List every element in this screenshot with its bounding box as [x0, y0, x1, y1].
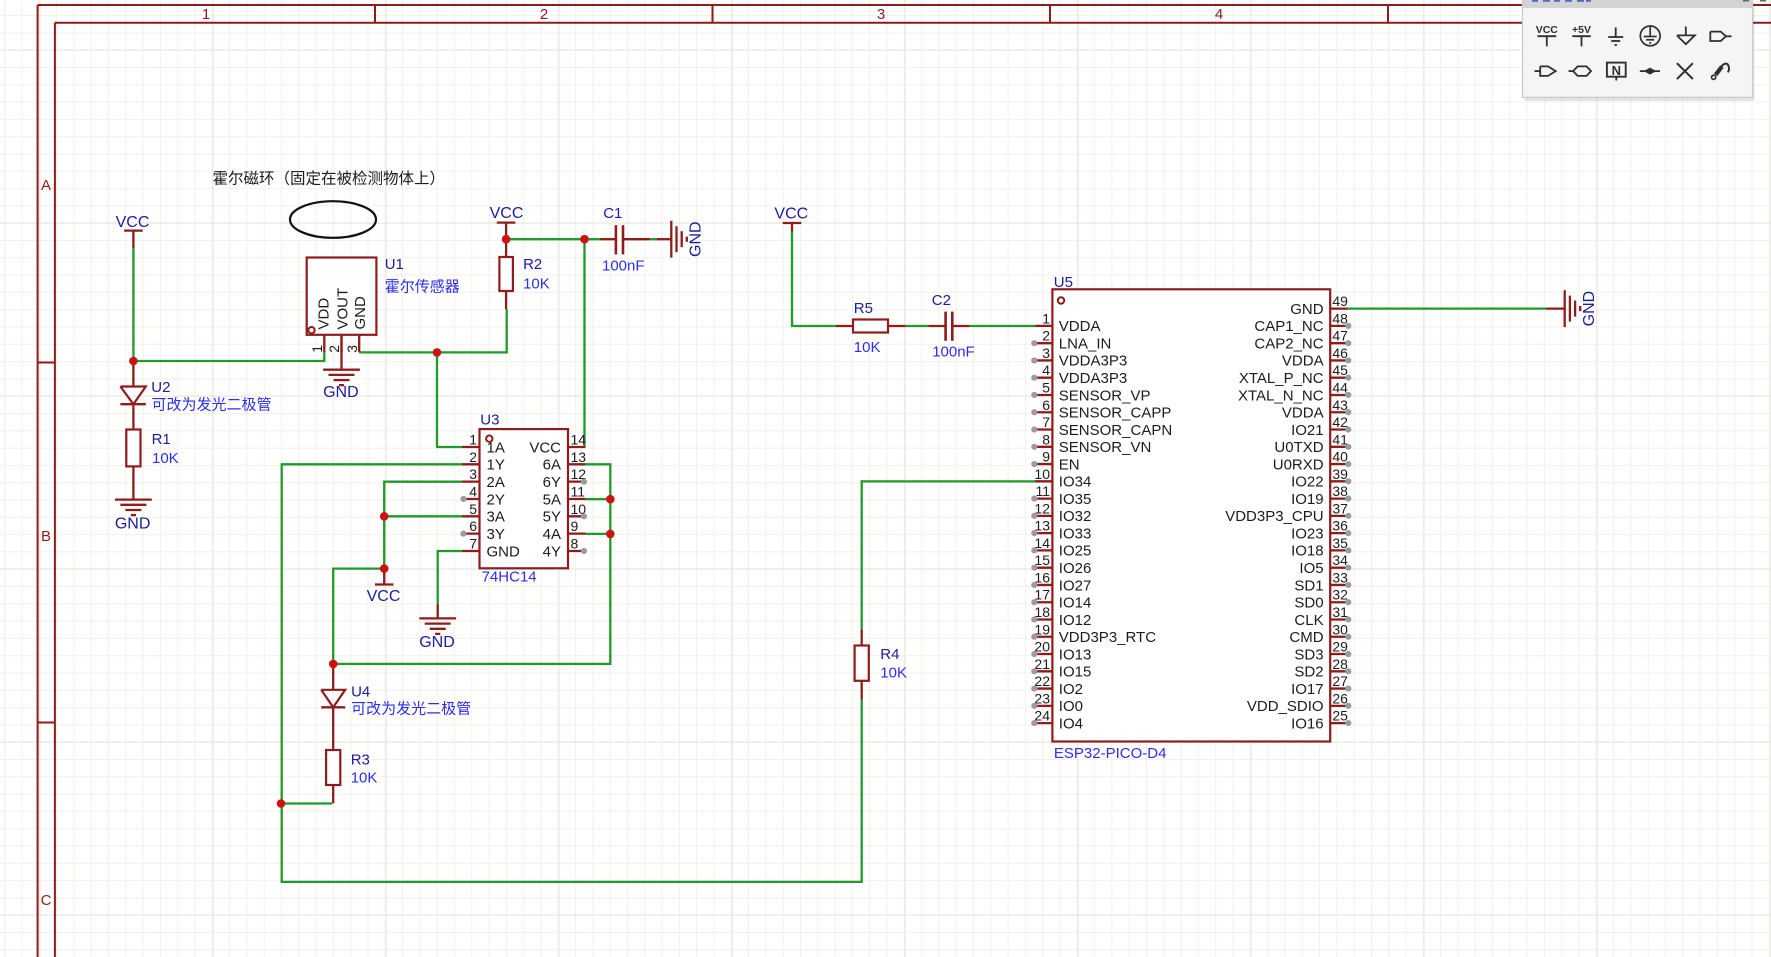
svg-text:VCC: VCC: [1536, 24, 1559, 36]
svg-text:38: 38: [1332, 483, 1348, 499]
svg-text:1Y: 1Y: [487, 457, 505, 474]
svg-text:IO12: IO12: [1059, 612, 1092, 629]
svg-text:SD1: SD1: [1294, 577, 1323, 594]
svg-text:SD3: SD3: [1294, 646, 1323, 663]
svg-text:A: A: [41, 177, 51, 194]
svg-text:4: 4: [1042, 362, 1050, 378]
svg-text:VCC: VCC: [529, 439, 561, 456]
svg-text:R2: R2: [523, 256, 542, 273]
svg-text:ESP32-PICO-D4: ESP32-PICO-D4: [1054, 745, 1167, 762]
svg-text:N: N: [1612, 63, 1621, 78]
svg-text:11: 11: [571, 483, 586, 499]
svg-text:CLK: CLK: [1294, 612, 1323, 629]
svg-text:+5V: +5V: [1572, 24, 1591, 36]
svg-text:GND: GND: [1290, 301, 1324, 318]
svg-text:VDDA3P3: VDDA3P3: [1059, 370, 1127, 387]
svg-text:6: 6: [1042, 397, 1050, 413]
svg-text:VDDA3P3: VDDA3P3: [1059, 353, 1127, 370]
svg-text:IO25: IO25: [1059, 543, 1092, 560]
svg-text:3Y: 3Y: [487, 526, 505, 543]
svg-text:XTAL_N_NC: XTAL_N_NC: [1238, 387, 1324, 404]
svg-text:46: 46: [1332, 345, 1348, 361]
svg-text:19: 19: [1034, 621, 1050, 637]
svg-text:3: 3: [877, 6, 885, 23]
svg-text:SD2: SD2: [1294, 664, 1323, 681]
svg-text:4A: 4A: [543, 526, 561, 543]
svg-text:C2: C2: [932, 292, 951, 309]
svg-text:U5: U5: [1054, 274, 1073, 291]
svg-text:10K: 10K: [880, 665, 907, 682]
svg-text:10K: 10K: [351, 770, 378, 787]
svg-text:GND: GND: [115, 515, 151, 532]
svg-text:R1: R1: [152, 431, 171, 448]
svg-text:16: 16: [1034, 569, 1050, 585]
svg-text:IO0: IO0: [1059, 698, 1083, 715]
svg-text:IO16: IO16: [1291, 715, 1324, 732]
svg-text:1: 1: [469, 432, 477, 448]
svg-text:20: 20: [1034, 639, 1050, 655]
svg-text:2Y: 2Y: [487, 491, 505, 508]
svg-text:3: 3: [469, 466, 477, 482]
svg-text:100nF: 100nF: [602, 258, 645, 275]
svg-text:6Y: 6Y: [543, 474, 561, 491]
svg-text:3A: 3A: [487, 509, 505, 526]
svg-text:IO13: IO13: [1059, 646, 1092, 663]
svg-text:21: 21: [1034, 656, 1050, 672]
svg-text:74HC14: 74HC14: [482, 569, 537, 586]
svg-text:LNA_IN: LNA_IN: [1059, 335, 1112, 352]
svg-text:2: 2: [469, 449, 477, 465]
svg-text:SENSOR_CAPP: SENSOR_CAPP: [1059, 405, 1172, 422]
svg-text:48: 48: [1332, 310, 1348, 326]
svg-text:VCC: VCC: [774, 206, 808, 223]
svg-text:34: 34: [1332, 552, 1348, 568]
svg-text:GND: GND: [323, 384, 359, 401]
svg-text:SENSOR_VP: SENSOR_VP: [1059, 387, 1151, 404]
svg-text:IO34: IO34: [1059, 474, 1092, 491]
svg-text:可改为发光二极管: 可改为发光二极管: [351, 701, 471, 718]
svg-text:7: 7: [469, 535, 477, 551]
svg-text:IO17: IO17: [1291, 681, 1324, 698]
svg-text:6: 6: [469, 518, 477, 534]
svg-text:2: 2: [326, 345, 342, 353]
svg-text:4Y: 4Y: [543, 543, 561, 560]
svg-text:36: 36: [1332, 518, 1348, 534]
svg-text:IO15: IO15: [1059, 664, 1092, 681]
svg-text:SD0: SD0: [1294, 595, 1323, 612]
svg-text:37: 37: [1332, 500, 1348, 516]
svg-text:26: 26: [1332, 690, 1348, 706]
svg-text:IO35: IO35: [1059, 491, 1092, 508]
svg-text:2A: 2A: [487, 474, 505, 491]
svg-text:IO32: IO32: [1059, 508, 1092, 525]
svg-text:9: 9: [571, 518, 579, 534]
svg-text:VDD3P3_RTC: VDD3P3_RTC: [1059, 629, 1156, 646]
svg-text:IO33: IO33: [1059, 525, 1092, 542]
svg-text:23: 23: [1034, 690, 1050, 706]
svg-text:C1: C1: [603, 205, 622, 222]
svg-text:VCC: VCC: [490, 205, 524, 222]
svg-text:1: 1: [309, 345, 325, 353]
svg-text:41: 41: [1332, 431, 1348, 447]
svg-text:5: 5: [1042, 379, 1050, 395]
svg-text:40: 40: [1332, 449, 1348, 465]
svg-text:10K: 10K: [523, 276, 550, 293]
svg-text:43: 43: [1332, 397, 1348, 413]
svg-text:10: 10: [1034, 466, 1050, 482]
svg-text:IO5: IO5: [1299, 560, 1323, 577]
svg-text:5A: 5A: [543, 491, 561, 508]
svg-text:GND: GND: [1581, 291, 1598, 327]
svg-text:1: 1: [202, 6, 210, 23]
svg-text:1: 1: [1042, 310, 1050, 326]
svg-text:27: 27: [1332, 673, 1348, 689]
svg-text:2: 2: [1042, 328, 1050, 344]
svg-text:CAP2_NC: CAP2_NC: [1254, 335, 1323, 352]
svg-text:6A: 6A: [543, 457, 561, 474]
svg-text:42: 42: [1332, 414, 1348, 430]
svg-text:10K: 10K: [152, 450, 179, 467]
svg-text:44: 44: [1332, 379, 1348, 395]
svg-text:XTAL_P_NC: XTAL_P_NC: [1239, 370, 1324, 387]
svg-text:39: 39: [1332, 466, 1348, 482]
svg-text:VDD3P3_CPU: VDD3P3_CPU: [1225, 508, 1323, 525]
svg-text:IO26: IO26: [1059, 560, 1092, 577]
svg-text:GND: GND: [419, 634, 455, 651]
svg-text:VCC: VCC: [116, 214, 150, 231]
svg-text:IO22: IO22: [1291, 474, 1324, 491]
svg-text:100nF: 100nF: [932, 344, 975, 361]
svg-text:U0RXD: U0RXD: [1273, 456, 1324, 473]
svg-text:GND: GND: [688, 221, 705, 257]
svg-text:GND: GND: [487, 543, 521, 560]
svg-text:32: 32: [1332, 587, 1348, 603]
svg-text:IO4: IO4: [1059, 715, 1083, 732]
svg-text:14: 14: [571, 432, 587, 448]
svg-text:霍尔传感器: 霍尔传感器: [385, 279, 460, 296]
svg-text:45: 45: [1332, 362, 1348, 378]
svg-text:B: B: [41, 528, 51, 545]
svg-text:30: 30: [1332, 621, 1348, 637]
svg-text:22: 22: [1034, 673, 1050, 689]
svg-text:U1: U1: [385, 256, 404, 273]
svg-text:IO18: IO18: [1291, 543, 1324, 560]
svg-text:28: 28: [1332, 656, 1348, 672]
svg-text:3: 3: [344, 345, 360, 353]
svg-text:CMD: CMD: [1289, 629, 1323, 646]
svg-text:CAP1_NC: CAP1_NC: [1254, 318, 1323, 335]
svg-text:VOUT: VOUT: [334, 288, 351, 330]
svg-text:4: 4: [469, 483, 477, 499]
svg-text:12: 12: [1034, 500, 1050, 516]
svg-text:VDD: VDD: [315, 298, 332, 330]
svg-text:SENSOR_VN: SENSOR_VN: [1059, 439, 1152, 456]
svg-text:9: 9: [1042, 449, 1050, 465]
svg-text:U4: U4: [351, 684, 370, 701]
svg-text:49: 49: [1332, 293, 1348, 309]
svg-text:R4: R4: [880, 646, 899, 663]
svg-text:IO14: IO14: [1059, 595, 1092, 612]
svg-text:7: 7: [1042, 414, 1050, 430]
svg-text:U3: U3: [480, 412, 499, 429]
svg-text:IO21: IO21: [1291, 422, 1324, 439]
svg-text:C: C: [41, 892, 52, 909]
svg-text:IO23: IO23: [1291, 525, 1324, 542]
svg-text:31: 31: [1332, 604, 1348, 620]
svg-text:13: 13: [571, 449, 587, 465]
svg-text:1A: 1A: [487, 439, 505, 456]
svg-text:EN: EN: [1059, 456, 1080, 473]
svg-text:VDDA: VDDA: [1059, 318, 1101, 335]
svg-text:24: 24: [1034, 708, 1050, 724]
svg-text:11: 11: [1035, 483, 1050, 499]
svg-text:14: 14: [1034, 535, 1050, 551]
svg-text:R3: R3: [351, 752, 370, 769]
svg-text:33: 33: [1332, 569, 1348, 585]
svg-text:47: 47: [1332, 328, 1348, 344]
svg-text:可改为发光二极管: 可改为发光二极管: [152, 397, 272, 414]
svg-text:2: 2: [540, 6, 548, 23]
svg-text:8: 8: [571, 535, 579, 551]
svg-text:霍尔磁环（固定在被检测物体上）: 霍尔磁环（固定在被检测物体上）: [213, 170, 446, 188]
svg-text:29: 29: [1332, 639, 1348, 655]
svg-text:10K: 10K: [854, 339, 881, 356]
svg-text:3: 3: [1042, 345, 1050, 361]
svg-text:13: 13: [1034, 518, 1050, 534]
svg-text:17: 17: [1034, 587, 1050, 603]
svg-text:SENSOR_CAPN: SENSOR_CAPN: [1059, 422, 1172, 439]
svg-text:U0TXD: U0TXD: [1274, 439, 1323, 456]
svg-text:IO2: IO2: [1059, 681, 1083, 698]
svg-text:VDDA: VDDA: [1282, 353, 1324, 370]
svg-text:VDD_SDIO: VDD_SDIO: [1247, 698, 1324, 715]
svg-text:18: 18: [1034, 604, 1050, 620]
svg-text:5Y: 5Y: [543, 509, 561, 526]
svg-text:VDDA: VDDA: [1282, 405, 1324, 422]
svg-text:IO19: IO19: [1291, 491, 1324, 508]
svg-text:25: 25: [1332, 708, 1348, 724]
svg-text:35: 35: [1332, 535, 1348, 551]
svg-text:U2: U2: [151, 379, 170, 396]
svg-text:4: 4: [1215, 6, 1223, 23]
svg-text:5: 5: [469, 501, 477, 517]
svg-text:R5: R5: [854, 300, 873, 317]
svg-text:8: 8: [1042, 431, 1050, 447]
svg-text:15: 15: [1034, 552, 1050, 568]
svg-text:GND: GND: [352, 296, 369, 330]
svg-text:VCC: VCC: [367, 588, 401, 605]
svg-text:IO27: IO27: [1059, 577, 1092, 594]
